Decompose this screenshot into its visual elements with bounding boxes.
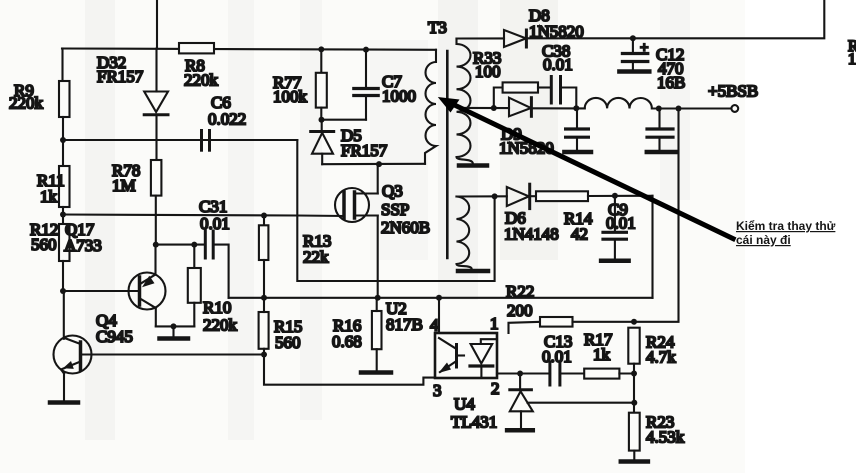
diode D9: [509, 98, 531, 117]
node C31 left junction: [153, 242, 159, 248]
capacitor C13: [548, 362, 551, 385]
resistor R9: [59, 81, 70, 117]
svg-text:560: 560: [31, 235, 57, 254]
node Q17 ground junction: [171, 323, 177, 329]
diode U4 TL431: [519, 374, 521, 389]
ground under Q17: [172, 326, 174, 336]
wire source return line: [229, 297, 653, 299]
node C38 right junction: [573, 105, 579, 111]
wire Q17 base line: [63, 290, 139, 292]
resistor R8: [179, 43, 214, 53]
svg-text:16B: 16B: [657, 73, 685, 92]
svg-text:1k: 1k: [593, 345, 611, 364]
node TL431 cathode junction: [517, 371, 523, 377]
wire aux top line: [457, 195, 507, 197]
transformer T3 core: [446, 51, 449, 258]
resistor R15: [259, 312, 269, 349]
node R17-R24 junction: [631, 371, 637, 377]
wire aux feed vertical: [651, 196, 653, 298]
resistor R16: [372, 311, 382, 349]
node cap2 junction: [656, 106, 662, 112]
svg-text:2: 2: [491, 379, 500, 398]
ground winding2: [458, 269, 488, 274]
svg-text:0.022: 0.022: [208, 110, 246, 129]
capacitor C9: [614, 196, 616, 231]
svg-text:2N60B: 2N60B: [381, 218, 430, 237]
wire opto pin1 stub: [509, 322, 541, 333]
svg-text:0.68: 0.68: [332, 332, 362, 351]
svg-text:3: 3: [433, 381, 442, 400]
transistor Q17: [129, 273, 166, 310]
capacitor filter1: [576, 109, 578, 128]
svg-text:4.53k: 4.53k: [646, 428, 685, 447]
diode D6: [507, 187, 529, 206]
svg-text:100: 100: [475, 62, 501, 81]
node drain junction: [376, 161, 382, 167]
resistor R10: [193, 245, 195, 268]
resistor R22: [540, 317, 573, 327]
node base junction: [60, 288, 66, 294]
wire Q4 base line: [81, 353, 265, 355]
svg-text:FR157: FR157: [341, 141, 388, 160]
transistor Q4: [54, 336, 92, 374]
resistor R23: [629, 413, 640, 451]
ground R16: [361, 370, 391, 375]
ground filter1: [564, 150, 591, 155]
svg-text:A733: A733: [64, 236, 102, 255]
ground R23: [621, 459, 648, 464]
capacitor C38: [550, 77, 553, 104]
wire gate line: [63, 215, 344, 217]
diode D32: [155, 49, 157, 92]
wire top vertical input: [156, 0, 158, 49]
node R16 top junction: [375, 295, 381, 301]
svg-text:U4: U4: [454, 395, 475, 414]
node opto pin4 junction: [436, 295, 442, 301]
svg-text:220k: 220k: [203, 316, 238, 335]
svg-text:220k: 220k: [184, 71, 219, 90]
resistor R11: [59, 166, 70, 207]
svg-text:1N4148: 1N4148: [504, 225, 559, 244]
resistor R13: [263, 216, 265, 226]
wire C6 line: [63, 139, 297, 141]
svg-text:TL431: TL431: [451, 413, 497, 432]
wire C31 right elbow: [214, 245, 229, 298]
resistor R14: [530, 195, 536, 197]
wire sense line down: [634, 109, 679, 322]
ground C9: [601, 259, 629, 264]
wire opto pin2 line: [497, 372, 550, 374]
diode D5: [321, 120, 323, 131]
annotation arrow: [438, 97, 736, 240]
node aux junction: [492, 193, 498, 199]
wire top bus: [62, 49, 436, 50]
wire opto pin4 stub: [438, 298, 440, 333]
wire R11-R12: [62, 207, 64, 224]
capacitor C31: [204, 231, 207, 258]
resistor R24: [628, 328, 639, 364]
svg-text:22k: 22k: [303, 248, 329, 267]
svg-text:560: 560: [275, 333, 301, 352]
node R11-R12 junction: [60, 212, 66, 218]
ground filter2: [647, 150, 676, 155]
op-amp U2 optocoupler box: [435, 333, 497, 378]
ground C12: [619, 69, 649, 74]
resistor R17: [584, 369, 619, 379]
node R10 top junction: [191, 242, 197, 248]
wire Q17 ground line: [156, 325, 195, 327]
svg-text:+5BSB: +5BSB: [708, 82, 758, 101]
transformer T3 secondary winding 1: [457, 39, 473, 164]
transistor Q3: [335, 188, 369, 222]
wire drain line: [322, 163, 425, 165]
svg-text:Q3: Q3: [382, 182, 403, 201]
svg-text:220k: 220k: [9, 94, 44, 113]
svg-text:100k: 100k: [273, 87, 308, 106]
node R9-C6 junction: [60, 137, 66, 143]
wire snubber bottom line: [321, 119, 366, 121]
wire R12 bottom: [62, 261, 64, 291]
wire D8 output line: [526, 0, 824, 38]
node R24 top junction: [631, 319, 637, 325]
svg-text:cái này đi: cái này đi: [736, 233, 791, 247]
capacitor C12: [632, 38, 634, 52]
svg-text:1k: 1k: [40, 187, 58, 206]
svg-text:0.01: 0.01: [542, 347, 572, 366]
capacitor filter2: [658, 109, 660, 128]
resistor R33: [494, 88, 503, 109]
wire opto pin3 line: [264, 355, 435, 385]
terminal +5BSB: [731, 105, 738, 112]
svg-text:R10: R10: [203, 298, 231, 317]
svg-text:0.01: 0.01: [606, 214, 636, 233]
svg-text:4.7k: 4.7k: [646, 348, 676, 367]
svg-text:C945: C945: [96, 327, 133, 346]
svg-text:42: 42: [571, 225, 588, 244]
node C7 top junction: [363, 47, 369, 53]
transformer T3 primary: [425, 50, 436, 164]
svg-text:R22: R22: [506, 282, 534, 301]
wire C31 line: [156, 244, 205, 246]
svg-text:4: 4: [430, 316, 439, 335]
wire R24-R23 vertical: [633, 374, 635, 413]
wire C6 right to aux return: [297, 140, 494, 281]
svg-text:+: +: [640, 40, 648, 56]
svg-text:1: 1: [490, 314, 499, 333]
ground TL431: [507, 428, 533, 433]
svg-text:1: 1: [848, 51, 856, 68]
svg-text:0.01: 0.01: [200, 214, 230, 233]
wire R9 bottom: [62, 117, 64, 166]
svg-text:1000: 1000: [382, 87, 416, 106]
wire D9 tap: [462, 107, 509, 109]
svg-text:T3: T3: [428, 18, 447, 37]
resistor R77: [320, 49, 322, 72]
capacitor C6: [200, 131, 203, 151]
svg-text:1M: 1M: [112, 176, 136, 195]
node R77 top junction: [318, 46, 324, 52]
node R33 left junction: [491, 105, 497, 111]
node D5 top junction: [319, 117, 325, 123]
node R15 base junction: [261, 352, 267, 358]
diode U2 LED: [481, 339, 496, 344]
ground winding1: [459, 163, 487, 168]
wire +5BSB line: [652, 107, 731, 109]
node C12 junction: [630, 35, 636, 41]
node C9 junction: [612, 193, 618, 199]
transformer T3 aux winding 2: [457, 197, 472, 270]
svg-text:SSP: SSP: [381, 200, 409, 219]
node ref junction: [631, 400, 637, 406]
svg-text:FR157: FR157: [97, 67, 144, 86]
transistor U2 phototransistor: [455, 345, 458, 368]
wire R78 bottom: [155, 196, 157, 245]
diode D8: [457, 37, 505, 39]
ground under Q4: [50, 400, 78, 405]
node sense junction: [676, 106, 682, 112]
capacitor C7: [365, 50, 367, 87]
svg-text:200: 200: [507, 301, 533, 320]
inductor L1: [585, 98, 652, 109]
svg-text:817B: 817B: [386, 315, 423, 334]
resistor R78: [151, 160, 162, 196]
wire D9 output line: [531, 107, 584, 109]
wire TL431 ref line: [528, 402, 635, 404]
svg-text:0.01: 0.01: [543, 55, 573, 74]
svg-text:Kiểm tra thay thử: Kiểm tra thay thử: [736, 219, 836, 233]
node R13-R15 junction: [261, 295, 267, 301]
wire left rail upper: [61, 49, 63, 82]
resistor R12: [59, 224, 70, 261]
